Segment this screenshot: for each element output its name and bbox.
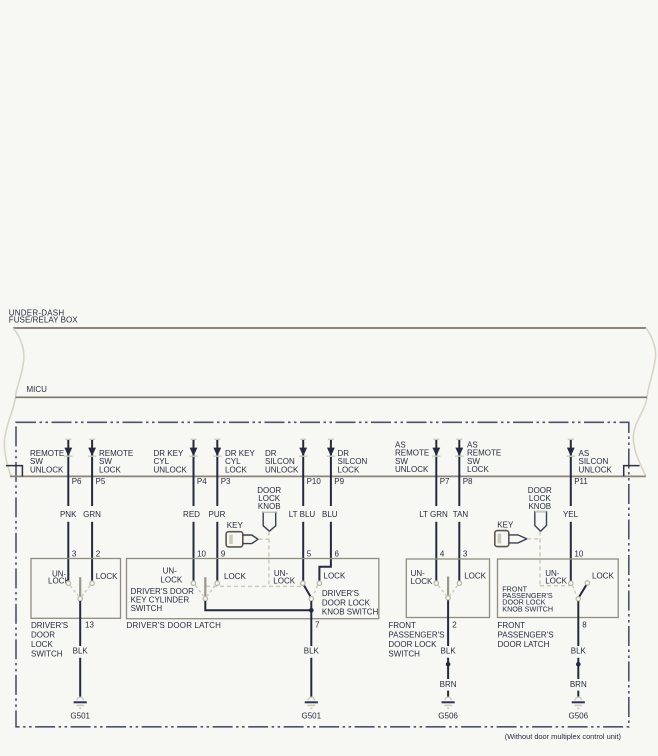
ground G506 (passenger's door latch) (575, 697, 581, 700)
svg-text:DOOR LOCK: DOOR LOCK (322, 598, 371, 607)
ground G501 (driver's door latch) (308, 697, 314, 700)
svg-text:DRIVER'S: DRIVER'S (31, 621, 68, 630)
front passenger's door lock switch box (406, 559, 489, 618)
svg-text:PUR: PUR (209, 510, 226, 519)
svg-text:KNOB SWITCH: KNOB SWITCH (322, 608, 379, 617)
svg-text:LOCK: LOCK (338, 465, 360, 474)
svg-text:UNLOCK: UNLOCK (30, 465, 64, 474)
svg-text:LOCK: LOCK (273, 576, 295, 585)
svg-text:SWITCH: SWITCH (31, 650, 63, 659)
key symbol (driver) (226, 532, 243, 547)
svg-text:BRN: BRN (570, 680, 587, 689)
svg-text:LOCK: LOCK (224, 572, 246, 581)
svg-text:G506: G506 (569, 711, 589, 720)
svg-text:BLK: BLK (441, 647, 457, 656)
svg-text:G506: G506 (438, 711, 458, 720)
MICU top edge (16, 396, 648, 398)
front passenger's door latch box (498, 559, 619, 618)
driver's door lock switch box (31, 559, 121, 619)
svg-text:LOCK: LOCK (96, 572, 118, 581)
ground G506 (passenger's door lock switch) (445, 697, 451, 700)
wire knob switch pivot to ground (310, 601, 312, 697)
wire as remote sw unlock (LT GRN) (433, 438, 439, 440)
svg-text:10: 10 (197, 549, 206, 558)
wire remote sw unlock (PNK) (65, 438, 71, 440)
svg-text:DRIVER'S: DRIVER'S (322, 589, 359, 598)
svg-text:DOOR LOCK: DOOR LOCK (388, 640, 437, 649)
wire dr key cyl unlock (RED) (191, 438, 197, 440)
mech link horizontal (passenger latch) (540, 585, 570, 587)
svg-text:LOCK: LOCK (592, 571, 614, 580)
svg-text:BLU: BLU (322, 510, 338, 519)
torn left edge of fuse/relay box (4, 328, 24, 476)
svg-text:DOOR LATCH: DOOR LATCH (498, 640, 550, 649)
svg-text:KEY: KEY (227, 521, 244, 530)
svg-text:LOCK: LOCK (225, 465, 247, 474)
svg-text:4: 4 (440, 549, 445, 558)
svg-text:10: 10 (574, 549, 583, 558)
svg-text:KEY: KEY (497, 520, 514, 529)
svg-text:6: 6 (335, 549, 340, 558)
svg-text:PASSENGER'S: PASSENGER'S (498, 631, 554, 640)
splice on passenger latch ground wire (576, 662, 581, 667)
svg-text:P3: P3 (221, 477, 231, 486)
svg-text:FRONT: FRONT (498, 621, 526, 630)
wire key cylinder pivot to junction (205, 601, 311, 610)
svg-text:LOCK: LOCK (411, 577, 433, 586)
mech link key to cylinder (driver) (259, 538, 269, 540)
svg-text:P10: P10 (307, 477, 322, 486)
mech link knob down (driver) (268, 532, 270, 587)
svg-text:BRN: BRN (440, 680, 457, 689)
svg-text:P11: P11 (574, 477, 588, 486)
door lock knob symbol (driver) (263, 512, 276, 531)
svg-text:PNK: PNK (60, 510, 77, 519)
svg-text:G501: G501 (302, 711, 322, 720)
svg-text:3: 3 (463, 549, 468, 558)
svg-text:(Without door multiplex contro: (Without door multiplex control unit) (505, 732, 621, 741)
svg-text:UNLOCK: UNLOCK (265, 465, 299, 474)
wire from passenger knob switch to ground (577, 601, 579, 697)
svg-text:SWITCH: SWITCH (131, 604, 163, 613)
driver's door latch box (127, 559, 379, 619)
svg-text:YEL: YEL (563, 510, 579, 519)
svg-text:2: 2 (96, 549, 101, 558)
wire dr silcon lock (BLU) (328, 438, 334, 440)
svg-text:LOCK: LOCK (467, 465, 489, 474)
svg-text:BLK: BLK (304, 647, 320, 656)
svg-text:TAN: TAN (453, 510, 469, 519)
svg-text:UNLOCK: UNLOCK (154, 465, 188, 474)
wire from driver's door lock switch to ground (79, 601, 81, 697)
ground G501 (driver's door lock switch) (77, 697, 83, 700)
svg-text:UNLOCK: UNLOCK (579, 465, 613, 474)
svg-text:FUSE/RELAY BOX: FUSE/RELAY BOX (9, 315, 78, 324)
door lock knob top edge (driver) (263, 511, 276, 513)
svg-text:7: 7 (315, 620, 320, 629)
svg-text:13: 13 (85, 620, 94, 629)
mech link key to knob switch (passenger) (527, 538, 540, 540)
svg-text:GRN: GRN (83, 510, 101, 519)
svg-text:KNOB SWITCH: KNOB SWITCH (502, 604, 553, 613)
svg-text:3: 3 (72, 549, 77, 558)
svg-text:DOOR: DOOR (31, 631, 55, 640)
svg-text:G501: G501 (70, 711, 90, 720)
key symbol (passenger) (495, 531, 509, 547)
torn right edge of fuse/relay box (633, 328, 655, 476)
svg-text:P7: P7 (440, 477, 450, 486)
MICU bottom edge (10, 475, 646, 477)
svg-text:BLK: BLK (571, 647, 587, 656)
svg-text:LOCK: LOCK (160, 575, 182, 584)
wire as silcon unlock (YEL) (568, 438, 574, 440)
door lock knob symbol (passenger) (535, 512, 547, 532)
svg-text:PASSENGER'S: PASSENGER'S (388, 631, 444, 640)
svg-text:LOCK: LOCK (99, 465, 121, 474)
splice on passenger switch ground wire (446, 662, 451, 667)
left connector notch (6, 466, 23, 477)
svg-text:P4: P4 (197, 477, 207, 486)
wire dr key cyl lock (PUR) (214, 438, 220, 440)
dash-dot variant border (without multiplex) (16, 422, 629, 727)
svg-text:P9: P9 (334, 477, 344, 486)
junction in driver's door latch (309, 608, 314, 613)
svg-text:LOCK: LOCK (324, 572, 346, 581)
svg-text:LT GRN: LT GRN (419, 510, 448, 519)
svg-text:SWITCH: SWITCH (388, 650, 420, 659)
svg-text:KNOB: KNOB (528, 502, 551, 511)
wire from passenger lock switch to ground (447, 600, 449, 697)
svg-text:RED: RED (183, 510, 200, 519)
svg-text:MICU: MICU (27, 385, 48, 394)
under-dash fuse/relay box top edge (13, 327, 646, 329)
svg-text:UNLOCK: UNLOCK (395, 465, 429, 474)
svg-text:2: 2 (452, 620, 457, 629)
svg-text:LOCK: LOCK (464, 571, 486, 580)
svg-text:BLK: BLK (73, 647, 89, 656)
svg-text:FRONT: FRONT (388, 621, 416, 630)
svg-text:LT BLU: LT BLU (289, 510, 316, 519)
svg-text:DRIVER'S DOOR LATCH: DRIVER'S DOOR LATCH (127, 621, 222, 630)
wire as remote sw lock (TAN) (456, 438, 462, 440)
svg-text:P6: P6 (72, 477, 82, 486)
mech link horizontal (driver latch) (206, 585, 302, 587)
svg-text:8: 8 (582, 620, 587, 629)
svg-text:LOCK: LOCK (545, 577, 567, 586)
svg-text:9: 9 (221, 549, 226, 558)
door lock knob top edge (passenger) (535, 511, 547, 513)
wire remote sw lock (GRN) (89, 438, 95, 440)
right connector notch (624, 466, 640, 477)
mech link knob down (passenger) (539, 532, 541, 586)
svg-text:P8: P8 (463, 477, 473, 486)
wire dr silcon unlock (LT BLU) (300, 438, 306, 440)
svg-text:KNOB: KNOB (258, 502, 281, 511)
svg-text:P5: P5 (96, 477, 106, 486)
svg-text:5: 5 (307, 549, 312, 558)
svg-text:LOCK: LOCK (31, 640, 53, 649)
